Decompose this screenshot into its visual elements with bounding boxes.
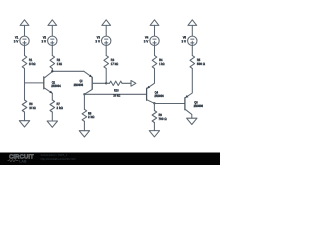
svg-text:10 kΩ: 10 kΩ [29,106,36,110]
svg-text:2 kΩ: 2 kΩ [88,115,95,119]
svg-text:LAB: LAB [19,159,27,163]
svg-text:700 Ω: 700 Ω [159,117,168,121]
svg-text:2N3906: 2N3906 [194,104,204,108]
svg-text:3 V: 3 V [144,39,149,43]
svg-text:10 kΩ: 10 kΩ [29,62,36,66]
svg-text:3 V: 3 V [182,39,187,43]
svg-text:2N3904: 2N3904 [51,84,61,88]
svg-text:2N3906: 2N3906 [154,94,164,98]
svg-text:1 kΩ: 1 kΩ [57,62,63,66]
svg-text:2 kΩ: 2 kΩ [57,106,64,110]
svg-text:http.//circuitlab.com/c/4hv7mh: http.//circuitlab.com/c/4hv7mh [41,157,76,161]
svg-text:1 kΩ: 1 kΩ [159,62,165,66]
svg-text:2N3906: 2N3906 [74,83,84,87]
svg-text:500 Ω: 500 Ω [197,62,206,66]
svg-text:3 V: 3 V [14,39,19,43]
svg-text:17 kΩ: 17 kΩ [111,62,119,66]
svg-text:3 V: 3 V [95,39,100,43]
svg-text:10 kΩ: 10 kΩ [113,94,120,98]
svg-text:R10: R10 [114,88,119,92]
svg-text:3 V: 3 V [42,39,47,43]
